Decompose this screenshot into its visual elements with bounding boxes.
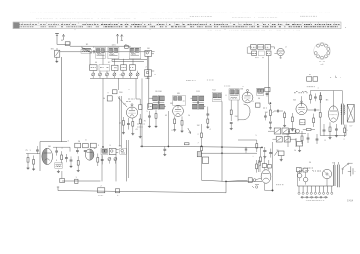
IF amp tube B2 <box>170 103 183 117</box>
resistor R22 <box>291 113 294 131</box>
coil S22 <box>101 148 108 154</box>
aerial coil S1 <box>81 44 94 53</box>
value labels <box>29 62 345 165</box>
capacitor C35 <box>335 124 338 137</box>
IF transformer S13 <box>229 89 239 100</box>
comb feed <box>298 172 303 186</box>
det out parts <box>252 101 260 107</box>
label out vals <box>324 76 348 142</box>
capacitor C24 <box>206 107 209 119</box>
wire R4 down <box>102 118 104 147</box>
bus riser x226 <box>225 181 227 192</box>
gang link diag <box>118 97 127 107</box>
AF bias boxes <box>300 120 305 125</box>
cathode resistor R27 <box>329 122 332 139</box>
capacitor C52 <box>245 147 247 153</box>
switch SK3 <box>109 148 119 154</box>
resistor R35 <box>77 156 80 172</box>
volume potentiometer R20 <box>263 103 274 130</box>
IF coil S12 <box>212 93 222 102</box>
label under comb <box>306 200 325 202</box>
box on bus B <box>98 185 105 195</box>
power labels <box>299 168 321 171</box>
heater run <box>264 189 272 191</box>
comp on bus A <box>75 177 78 183</box>
FM IF parts row <box>75 141 96 154</box>
svg-text:1M: 1M <box>265 112 268 114</box>
svg-text:x: x <box>243 86 244 88</box>
svg-text:S9 S10: S9 S10 <box>155 91 162 93</box>
resistor R12 <box>173 116 176 131</box>
resistor R9 <box>139 114 141 130</box>
wire bus2 <box>202 152 258 154</box>
resistor R14 <box>206 119 209 128</box>
wire AF plate <box>302 96 311 103</box>
IF transformer S11 <box>190 91 205 110</box>
B8 below parts <box>252 183 264 190</box>
capacitor C50 <box>163 146 166 155</box>
output transformer S16 <box>341 104 345 125</box>
resistor R24 <box>319 110 321 122</box>
svg-text:1k: 1k <box>188 115 190 117</box>
svg-text:4: 4 <box>93 47 94 49</box>
IF can side box <box>148 104 153 110</box>
wire rect feed <box>272 134 274 191</box>
resistor R8 <box>132 118 134 132</box>
resistor R16 <box>230 100 232 121</box>
detector parts right <box>265 87 270 96</box>
label S414 <box>347 201 354 203</box>
B8 top parts <box>262 158 271 170</box>
resistor R13 <box>181 116 184 132</box>
wire antenna feed <box>57 42 131 46</box>
bus A wire <box>62 180 101 182</box>
resistor R23 <box>307 87 322 104</box>
box on bus A <box>60 171 65 183</box>
grid box B2 <box>173 93 186 105</box>
capacitor C45 <box>101 156 104 165</box>
FM tube B7 <box>85 148 97 160</box>
smoothing cap C60 <box>263 147 266 158</box>
svg-text:x: x <box>129 89 130 91</box>
wire output top <box>310 88 342 106</box>
mains switch <box>342 163 353 174</box>
arrow R13 <box>188 128 191 133</box>
wire gang verticals <box>120 96 122 148</box>
svg-text:d: d <box>285 47 286 49</box>
rectifier plates row1 <box>268 128 300 134</box>
pot arrow comp <box>274 150 278 156</box>
mixer tube B1 <box>123 104 137 119</box>
top boxes B4 <box>307 74 318 81</box>
mains plug <box>348 166 357 176</box>
ground FM mid <box>57 170 60 173</box>
label FM values <box>67 141 122 148</box>
capacitor C44 <box>70 156 73 167</box>
FM tube B6 <box>42 146 53 165</box>
dial pointer marks <box>75 27 347 30</box>
switch M1 <box>51 49 60 58</box>
capacitor C29 <box>230 123 233 130</box>
earth terminal <box>62 34 65 40</box>
resistor R36 <box>97 154 99 167</box>
svg-text:S 414: S 414 <box>347 201 354 203</box>
motor circle <box>322 169 331 186</box>
dial lamp symbols <box>116 34 123 44</box>
wire det vertical2 <box>237 100 239 121</box>
coil S4 <box>125 44 141 58</box>
padder trimmer bank <box>90 52 140 79</box>
capacitor C31 <box>274 110 283 113</box>
rectifier tube B8 <box>258 162 271 183</box>
svg-text:1k: 1k <box>103 98 105 100</box>
wire am bus <box>57 48 150 52</box>
wire FM link <box>53 147 70 151</box>
capacitor C1 <box>61 40 70 45</box>
wire M1 gnd <box>55 57 58 62</box>
resistor R40 <box>181 143 193 145</box>
resistor R31 <box>27 154 30 170</box>
ground mixer bank <box>122 130 142 138</box>
junction ticks <box>93 50 94 53</box>
coil S23 <box>120 148 126 154</box>
tone pot R44 <box>256 160 261 173</box>
tube socket view <box>314 43 331 66</box>
tone capacitor C36 <box>323 124 326 136</box>
bottom parts AF <box>301 131 318 144</box>
dial labels above <box>36 16 317 19</box>
label 260 <box>112 90 123 94</box>
header caption row <box>30 12 330 14</box>
FM box outline <box>40 142 67 171</box>
parts on bus C <box>248 178 261 183</box>
diode arc <box>238 104 250 120</box>
output tube B5 <box>326 99 339 122</box>
coil S21 <box>55 163 63 169</box>
smoothing cap C61 <box>269 149 272 158</box>
wire IF can link <box>149 97 152 99</box>
wire bus1 <box>140 146 262 147</box>
coil S2 <box>108 44 119 58</box>
bus B left riser <box>57 187 59 191</box>
wire FM input <box>25 150 40 154</box>
bus B wire <box>58 191 226 193</box>
resistor R32 <box>32 156 35 171</box>
wire IF1 drop <box>167 111 169 147</box>
FM discriminator cluster <box>247 45 286 59</box>
label mixer values <box>119 99 147 131</box>
feedback loop <box>320 93 346 136</box>
grid cap parts <box>136 95 142 109</box>
resistor R43 <box>259 147 261 166</box>
resistor R4 <box>103 96 112 101</box>
capacitor C40 <box>36 146 39 154</box>
small parts above power <box>297 142 303 152</box>
junction dots <box>102 146 262 182</box>
capacitor C20 <box>148 111 151 128</box>
electrolytic cluster <box>296 168 308 185</box>
resistor R33 <box>61 151 63 163</box>
band switch SK1 <box>145 48 155 56</box>
AVC resistor bank <box>197 124 208 180</box>
svg-text:1k: 1k <box>294 150 296 152</box>
wire bank drops <box>103 78 142 147</box>
AF tube B4 <box>293 100 307 115</box>
capacitor C41 <box>55 147 58 155</box>
IF transformer S9 <box>151 91 166 110</box>
wire det vertical <box>221 101 223 181</box>
label near heater <box>276 184 284 186</box>
svg-text:2M: 2M <box>235 116 238 118</box>
resistor R25 <box>313 114 315 127</box>
capacitor C33 <box>307 109 319 112</box>
small comp top <box>125 45 129 48</box>
coil S14 <box>257 88 264 95</box>
capacitor C12 <box>127 118 130 130</box>
coil S2a <box>95 48 105 59</box>
feedback resistor R28 <box>344 125 346 137</box>
loudspeaker <box>347 104 354 127</box>
voltage selector comb <box>298 186 334 198</box>
resistor R42 <box>238 140 258 152</box>
capacitor C42 <box>65 154 68 162</box>
rectifier plates row2 <box>273 137 297 142</box>
FM audio feed <box>269 56 271 105</box>
comp on bus B <box>115 189 119 195</box>
detector tube B3 <box>241 88 253 103</box>
resistor R7 <box>122 117 124 131</box>
antenna A1 <box>55 34 59 45</box>
dial scale strip <box>13 22 341 29</box>
FM vertical drops <box>102 140 129 181</box>
bus C wire <box>226 180 248 181</box>
mains transformer S25 <box>333 162 339 187</box>
band switch SK2 <box>145 70 157 79</box>
wire af bus <box>283 134 306 147</box>
grid resistor R26 <box>303 129 315 131</box>
wire vertical main <box>60 57 62 142</box>
svg-text:1M: 1M <box>197 125 200 127</box>
label AF section <box>186 78 341 93</box>
wire avc to riser <box>202 180 263 181</box>
resistor R21 <box>283 111 286 127</box>
resistor R11 <box>155 110 158 127</box>
gang link wires <box>112 56 149 108</box>
trimmer C47 <box>108 158 117 164</box>
bleeder box <box>278 151 284 161</box>
